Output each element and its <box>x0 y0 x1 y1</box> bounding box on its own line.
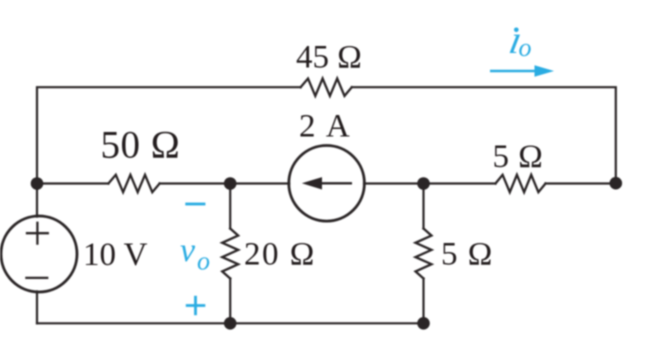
svg-text:2 A: 2 A <box>299 109 352 145</box>
svg-text:v: v <box>180 232 196 269</box>
svg-text:20 Ω: 20 Ω <box>244 237 316 273</box>
svg-text:45 Ω: 45 Ω <box>296 40 362 76</box>
svg-text:o: o <box>519 33 532 62</box>
svg-text:10 V: 10 V <box>83 237 148 273</box>
svg-text:o: o <box>197 247 210 276</box>
svg-text:5 Ω: 5 Ω <box>493 139 544 175</box>
svg-text:5 Ω: 5 Ω <box>441 237 493 273</box>
svg-text:50 Ω: 50 Ω <box>101 124 181 167</box>
